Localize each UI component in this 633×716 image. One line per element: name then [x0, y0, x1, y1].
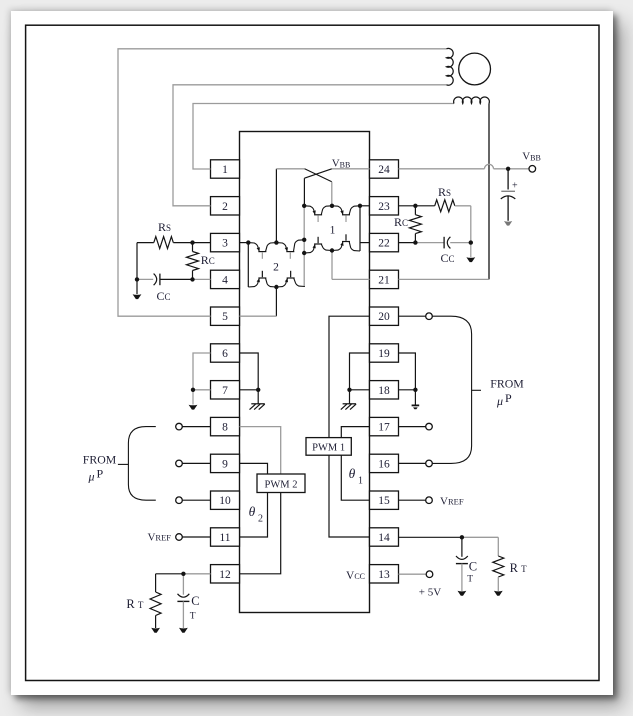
node Cc left	[135, 277, 139, 281]
terminal pin 8	[176, 423, 211, 430]
svg-text:22: 22	[378, 238, 390, 250]
svg-text:7: 7	[222, 385, 228, 397]
svg-text:5: 5	[222, 311, 228, 323]
ground pins6-7 left	[189, 390, 198, 410]
transistor Q4 (bridge1 bottom-right)	[332, 234, 360, 251]
pin 2 box	[211, 197, 240, 215]
svg-text:12: 12	[219, 569, 231, 581]
wire pin24 to VBB terminal	[399, 164, 529, 169]
svg-text:3: 3	[222, 238, 228, 250]
wire pin12 to node	[183, 573, 210, 575]
label theta2	[249, 504, 263, 525]
node bridge1 left upper	[302, 238, 306, 242]
svg-text:C: C	[469, 560, 477, 574]
node pin4/Rc/Cc	[190, 277, 194, 281]
svg-text:2: 2	[222, 201, 228, 213]
resistor RT (right)	[462, 537, 504, 591]
wire pin7 inside	[240, 389, 259, 391]
node pin23/Rs/Rc (right)	[413, 204, 417, 208]
label CT (right)	[467, 560, 477, 585]
label Rs (right)	[438, 185, 451, 199]
pin 8 box	[211, 417, 240, 435]
svg-text:13: 13	[378, 569, 390, 581]
label bridge 2	[273, 262, 279, 274]
wire pin3 to node	[193, 242, 211, 244]
wire pin2 to motor winding bottom	[173, 85, 447, 206]
svg-text:16: 16	[378, 458, 390, 470]
ground right Cc	[466, 243, 475, 263]
svg-text:P: P	[96, 467, 103, 481]
wire X to bridge1 left	[303, 178, 305, 206]
ground hatched pins19-18	[341, 390, 356, 410]
svg-text:CC: CC	[156, 289, 170, 303]
svg-text:18: 18	[378, 385, 390, 397]
wire pin22 bridge1	[360, 242, 370, 244]
svg-text:VREF: VREF	[147, 532, 171, 544]
wire Rs to Cc (left rail)	[136, 243, 138, 280]
pin 16 box	[370, 454, 399, 472]
resistor Rc (right)	[409, 206, 421, 243]
node pins19-18 inside	[347, 388, 351, 392]
svg-text:17: 17	[378, 422, 390, 434]
svg-text:20: 20	[378, 311, 390, 323]
block PWM 2	[257, 474, 305, 493]
resistor Rs (right)	[415, 200, 470, 212]
svg-text:6: 6	[222, 348, 228, 360]
node bridge2 top-center	[274, 240, 278, 244]
ground pins19-18 right	[412, 390, 420, 410]
capacitor Cc (left)	[137, 274, 193, 286]
svg-text:1: 1	[330, 225, 336, 237]
motor winding L1 (vertical)	[447, 48, 454, 85]
svg-text:11: 11	[219, 532, 230, 544]
svg-text:RS: RS	[438, 185, 451, 199]
pin 23 box	[370, 197, 399, 215]
terminal pin 11 VREF	[176, 534, 211, 541]
svg-text:RS: RS	[158, 220, 171, 234]
block PWM 1	[306, 438, 351, 456]
wire winding to pin 21	[399, 104, 490, 280]
transistor Q5 (bridge2 top-left)	[248, 243, 276, 259]
svg-text:2: 2	[258, 514, 263, 525]
transistor Q1 (bridge1 top-left)	[304, 206, 332, 222]
ground CT right	[458, 591, 467, 596]
svg-text:FROM: FROM	[490, 377, 524, 391]
pin 18 box	[370, 381, 399, 399]
label VBB (inside)	[332, 157, 351, 169]
pin 11 box	[211, 528, 240, 546]
transistor Q7 (bridge2 bottom-left)	[248, 271, 276, 287]
svg-text:μ: μ	[496, 394, 503, 408]
wire pin19 outside	[399, 353, 416, 390]
svg-text:10: 10	[219, 495, 231, 507]
terminal pin 15 VREF	[399, 497, 433, 504]
svg-text:P: P	[505, 391, 512, 405]
node pins6-7 left	[191, 388, 195, 392]
pin 24 box	[370, 160, 399, 178]
pin 21 box	[370, 270, 399, 288]
label FROM uP (left)	[83, 453, 117, 484]
resistor RT (left)	[150, 574, 183, 628]
pin 22 box	[370, 233, 399, 251]
capacitor C1 (VBB bulk, polarized)	[501, 169, 518, 226]
svg-text:2: 2	[273, 262, 279, 274]
pin 6 box	[211, 344, 240, 362]
svg-text:21: 21	[378, 274, 390, 286]
wire pin23 to node	[399, 205, 416, 207]
wire pin17 to PWM1	[341, 427, 369, 438]
label RT (right)	[510, 561, 527, 575]
pin 1 box	[211, 160, 240, 178]
svg-text:R T: R T	[510, 561, 527, 575]
wire pin18 inside	[350, 389, 370, 391]
svg-text:19: 19	[378, 348, 390, 360]
label bridge 1	[330, 225, 336, 237]
pin 12 box	[211, 565, 240, 583]
node pin3/Rs/Rc	[190, 240, 194, 244]
pin 20 box	[370, 307, 399, 325]
label Cc (right)	[440, 251, 454, 265]
node pin12 RT/CT	[181, 572, 185, 576]
capacitor CT (right)	[456, 537, 468, 591]
terminal pin 20	[399, 313, 433, 320]
motor rotor circle	[459, 53, 491, 85]
transistor Q2 (bridge1 top-right)	[332, 206, 360, 222]
label RT (left)	[126, 597, 143, 611]
svg-text:1: 1	[358, 476, 363, 487]
pin 17 box	[370, 417, 399, 435]
IC body U1	[240, 132, 370, 613]
svg-text:1: 1	[222, 164, 228, 176]
label theta1	[349, 466, 363, 487]
label Rc (left)	[201, 253, 215, 267]
node bridge2 bottom-center	[274, 285, 278, 289]
wire pin20 to PWM1	[329, 316, 370, 437]
svg-text:VBB: VBB	[332, 157, 351, 169]
ground CT left	[179, 628, 188, 633]
svg-text:9: 9	[222, 458, 228, 470]
label Rs (left)	[158, 220, 171, 234]
ground left Cc	[133, 279, 142, 299]
node bridge1 top-right	[358, 204, 362, 208]
node bridge2 top-left	[246, 240, 250, 244]
pin 19 box	[370, 344, 399, 362]
wire pin6 outside	[193, 353, 211, 390]
label VREF (left)	[147, 532, 171, 544]
svg-text:PWM 1: PWM 1	[312, 443, 345, 454]
label VCC	[346, 570, 365, 582]
wire X to bridge1 center	[331, 182, 333, 206]
svg-text:14: 14	[378, 532, 390, 544]
resistor Rc (left)	[187, 243, 199, 280]
wire pin3 inside	[240, 242, 249, 244]
pin 15 box	[370, 491, 399, 509]
label FROM uP (right)	[490, 377, 524, 408]
rail bridge1 right	[359, 206, 361, 251]
transistor Q3 (bridge1 bottom-left)	[304, 237, 332, 253]
wire PWM1 to pin14	[329, 455, 370, 537]
wire pin13 to +5V	[399, 573, 427, 575]
wire PWM2 to pin11	[240, 493, 268, 538]
svg-text:4: 4	[222, 274, 228, 286]
wire pin24 inside	[332, 168, 370, 170]
node pin14 CT/RT	[460, 535, 464, 539]
wire pin8 to PWM2	[240, 427, 281, 474]
wire PWM1 to pin15	[341, 455, 369, 500]
svg-text:RC: RC	[394, 215, 408, 229]
svg-text:C: C	[191, 594, 199, 608]
node bridge1 top-center	[330, 204, 334, 208]
label CT (left)	[190, 594, 200, 622]
resistor Rs (left)	[137, 237, 193, 249]
label Rc (right)	[394, 215, 408, 229]
pin 13 box	[370, 565, 399, 583]
terminal +5V	[426, 571, 433, 578]
label VBB (right)	[522, 151, 541, 163]
terminal pin 16	[399, 460, 433, 467]
wire pin18 outside	[399, 389, 416, 391]
label Cc (left)	[156, 289, 170, 303]
terminal pin 9	[176, 460, 211, 467]
svg-text:θ: θ	[349, 466, 356, 481]
wire pin22 to node	[399, 242, 416, 244]
svg-text:VREF: VREF	[440, 496, 464, 508]
svg-text:μ: μ	[87, 470, 94, 484]
wire pin7 outside	[193, 389, 211, 391]
wire crossing X	[304, 169, 331, 182]
wire pin9 to PWM2	[240, 463, 268, 474]
svg-text:23: 23	[378, 201, 390, 213]
wire PWM2 to pin12	[240, 493, 281, 574]
wire bridge2 out to pin5	[240, 287, 277, 316]
pin 4 box	[211, 270, 240, 288]
node pins19-18 right	[413, 388, 417, 392]
svg-text:+: +	[512, 181, 518, 192]
svg-text:8: 8	[222, 422, 228, 434]
rail bridge2 left	[247, 243, 249, 287]
motor winding L2 (horizontal)	[454, 97, 490, 104]
wire pin19 inside	[350, 353, 370, 390]
wire node to pin4	[193, 278, 211, 280]
node bridge1 bottom-center	[330, 248, 334, 252]
brace FROM uP (right)	[432, 316, 481, 463]
wire bridge2 feed	[276, 169, 304, 243]
label VREF (right)	[440, 496, 464, 508]
capacitor Cc (right)	[415, 237, 470, 249]
wire Rs to Cc (right rail)	[470, 206, 472, 243]
svg-text:CC: CC	[440, 251, 454, 265]
terminal pin 10	[176, 497, 211, 504]
wire pin14 to node	[399, 536, 462, 538]
capacitor CT (left)	[177, 574, 189, 628]
svg-text:FROM: FROM	[83, 453, 117, 467]
ground RT right	[494, 591, 503, 596]
pin 5 box	[211, 307, 240, 325]
svg-text:+ 5V: + 5V	[419, 587, 441, 599]
transistor Q6 (bridge2 top-right)	[276, 240, 304, 259]
node bridge1 top-left	[302, 204, 306, 208]
svg-text:PWM 2: PWM 2	[265, 479, 298, 490]
node pins6-7 inside	[256, 388, 260, 392]
brace FROM uP (left)	[118, 427, 156, 501]
wire pin6 inside	[240, 353, 259, 390]
pin 9 box	[211, 454, 240, 472]
pin 14 box	[370, 528, 399, 546]
node Cc right	[469, 240, 473, 244]
svg-text:24: 24	[378, 164, 390, 176]
wire bridge1 out to pin21	[332, 251, 370, 280]
terminal VBB	[529, 166, 536, 173]
ground RT left	[151, 628, 160, 633]
svg-text:T: T	[190, 612, 196, 622]
pin 10 box	[211, 491, 240, 509]
label +5V	[419, 587, 441, 599]
pin 7 box	[211, 381, 240, 399]
node VBB junction	[506, 167, 510, 171]
svg-text:VCC: VCC	[346, 570, 365, 582]
pin 3 box	[211, 233, 240, 251]
transistor Q8 (bridge2 bottom-right)	[276, 271, 305, 287]
svg-text:θ: θ	[249, 504, 256, 519]
svg-text:15: 15	[378, 495, 390, 507]
svg-text:T: T	[467, 575, 473, 585]
node bridge1 left lower	[302, 251, 306, 255]
svg-text:RC: RC	[201, 253, 215, 267]
terminal pin 17	[399, 423, 433, 430]
ground hatched pins6-7	[250, 390, 265, 410]
node pin22/Rc/Cc (right)	[413, 240, 417, 244]
wire pin23 bridge1	[360, 205, 370, 207]
wire pin5 to motor top	[118, 49, 447, 316]
svg-text:R T: R T	[126, 597, 143, 611]
svg-text:VBB: VBB	[522, 151, 541, 163]
wire pin1 to lower winding	[193, 104, 454, 170]
rail bridge1 left (gray)	[303, 206, 305, 287]
